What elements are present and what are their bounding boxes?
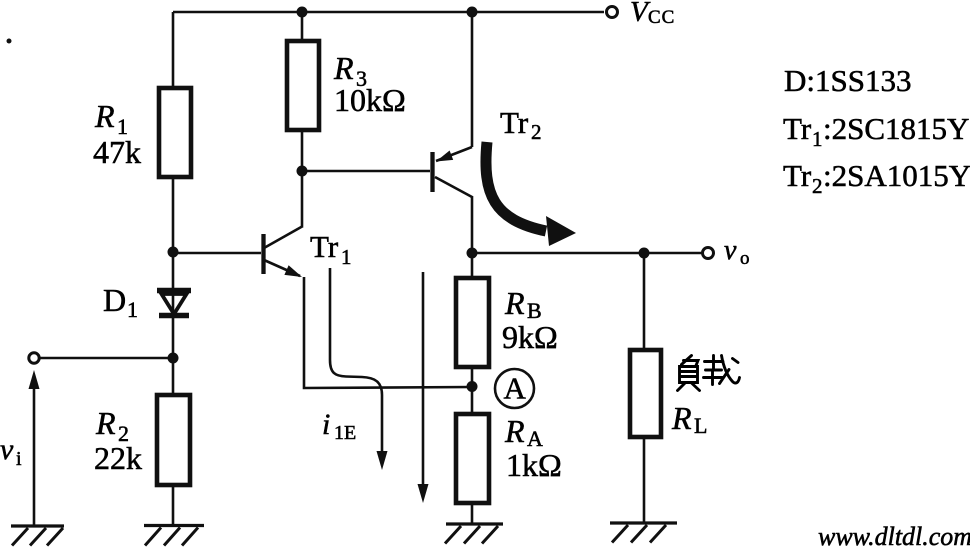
wire output rail	[472, 252, 702, 255]
terminal vo	[703, 248, 714, 259]
svg-text:www.dltdl.com: www.dltdl.com	[818, 522, 970, 547]
ground under RL	[610, 523, 677, 543]
transistor Tr1	[264, 226, 304, 277]
svg-text:1E: 1E	[334, 422, 356, 444]
label vo	[724, 235, 750, 269]
svg-text:i: i	[16, 448, 22, 470]
wire R2 to ground	[172, 485, 175, 525]
svg-text:Tr: Tr	[500, 105, 529, 140]
terminal vi input	[29, 353, 39, 363]
svg-text:R: R	[504, 285, 525, 321]
input source arrow	[29, 370, 40, 526]
wire base of Tr1	[173, 252, 261, 255]
node A junction	[467, 381, 478, 392]
svg-text:v: v	[0, 433, 14, 466]
wire top supply rail	[173, 11, 604, 14]
svg-text:22k: 22k	[94, 440, 142, 476]
node rail at Tr2	[467, 7, 478, 18]
svg-text:R: R	[94, 98, 115, 134]
current arrow thick curved	[486, 142, 576, 246]
label RB 9k	[502, 285, 558, 355]
wire to RB	[471, 253, 474, 278]
svg-text:R: R	[95, 405, 116, 441]
ground at input	[11, 526, 64, 546]
wire left branch from rail to R1	[172, 12, 175, 88]
node rail at R3	[297, 7, 308, 18]
resistor RL	[630, 350, 661, 437]
svg-text:Tr: Tr	[783, 158, 812, 193]
node A circle label	[495, 369, 534, 408]
svg-text:1kΩ: 1kΩ	[506, 447, 562, 483]
wire RL branch	[643, 253, 646, 350]
wire R1 bottom to node	[172, 177, 175, 290]
label D1	[103, 282, 138, 322]
node output junction	[467, 248, 478, 259]
long current arrow	[418, 272, 429, 503]
wire RA to ground	[471, 502, 474, 524]
svg-text:i: i	[322, 408, 330, 441]
wire Tr1 emitter down and right to node A	[304, 277, 472, 388]
svg-text:1: 1	[127, 297, 138, 322]
svg-text:R: R	[504, 413, 525, 449]
wire input	[39, 357, 173, 360]
node RL branch	[639, 248, 650, 259]
label R2 22k	[94, 405, 142, 476]
ground under R2	[144, 526, 204, 546]
wire RL to ground	[643, 437, 646, 523]
wire D1 to input node	[172, 315, 175, 395]
svg-text:1: 1	[812, 127, 823, 151]
speck artifact left edge	[7, 39, 12, 44]
label RL	[671, 400, 707, 438]
diode D1	[157, 290, 191, 316]
svg-text:o: o	[740, 248, 750, 269]
svg-text:R: R	[333, 50, 354, 86]
svg-text:Tr: Tr	[310, 229, 339, 264]
svg-text:v: v	[724, 235, 737, 266]
label i1E	[322, 408, 356, 444]
svg-text:Tr: Tr	[783, 111, 812, 146]
parts list line 2 Tr1:2SC1815Y	[783, 111, 969, 151]
resistor R2	[157, 395, 190, 485]
current path i1E curved arrow	[330, 268, 388, 470]
resistor RB	[456, 278, 489, 367]
label R3 10k	[333, 50, 406, 118]
svg-text::2SC1815Y: :2SC1815Y	[823, 111, 969, 146]
wire RB to node A	[471, 367, 474, 414]
svg-text:47k: 47k	[93, 134, 141, 170]
node below R3	[297, 166, 308, 177]
label RA 1k	[504, 413, 562, 483]
label Tr1	[310, 229, 352, 269]
transistor Tr2	[433, 147, 473, 197]
node at base of Tr1 branch	[168, 247, 179, 258]
svg-text:2: 2	[812, 174, 823, 198]
parts list line 3 Tr2:2SA1015Y	[783, 158, 970, 198]
wire R3 bottom to node	[301, 130, 304, 171]
ground under RA	[445, 524, 503, 544]
wire base of Tr2	[302, 170, 430, 173]
svg-text::2SA1015Y: :2SA1015Y	[823, 158, 970, 193]
resistor RA	[456, 414, 489, 503]
wire Tr2 collector down	[471, 196, 474, 253]
node input junction	[168, 353, 179, 364]
terminal VCC	[607, 7, 618, 18]
wire Tr2 emitter to rail	[471, 12, 474, 147]
svg-text:D:1SS133: D:1SS133	[784, 63, 911, 98]
wire node down to Tr1 collector	[301, 171, 304, 226]
label VCC	[630, 0, 675, 28]
label R1 47k	[93, 98, 141, 170]
svg-text:1: 1	[341, 245, 352, 269]
svg-text:CC: CC	[648, 7, 675, 28]
svg-text:L: L	[694, 413, 707, 438]
svg-text:2: 2	[531, 120, 542, 144]
wire R3 branch from rail	[301, 12, 304, 41]
svg-text:D: D	[103, 282, 126, 318]
label vi	[0, 433, 22, 470]
resistor R1	[159, 88, 191, 177]
svg-text:A: A	[504, 371, 527, 406]
label Tr2	[500, 105, 542, 144]
svg-text:9kΩ: 9kΩ	[502, 319, 558, 355]
svg-text:R: R	[671, 400, 692, 436]
svg-text:10kΩ: 10kΩ	[334, 82, 406, 118]
label load RL (Chinese)	[678, 356, 740, 391]
resistor R3	[287, 41, 319, 130]
